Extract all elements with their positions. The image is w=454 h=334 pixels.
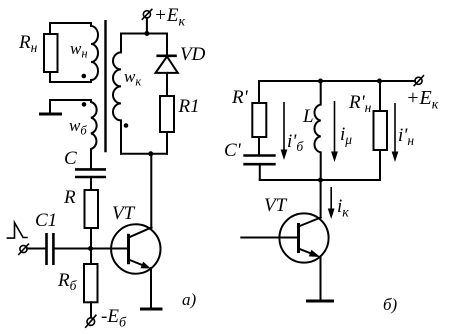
polarity dot wк — [124, 123, 129, 128]
inductor L — [314, 81, 320, 180]
wire: diode to R1 — [166, 73, 168, 96]
wire: C to R — [90, 178, 92, 190]
transistor VT (circuit a) — [111, 224, 160, 273]
wire: bottom rail (b) — [260, 179, 380, 181]
wire: Rн left vertical bottom — [49, 72, 51, 82]
emitter VT(b) with arrow — [299, 249, 313, 254]
ground (circuit b) — [306, 300, 334, 303]
pulse symbol — [7, 223, 28, 239]
winding wб — [91, 100, 97, 168]
current arrow iк — [330, 187, 332, 211]
wire: wб left drop — [49, 100, 51, 113]
svg-text:R1: R1 — [178, 96, 200, 117]
wire: R to base node — [90, 228, 92, 249]
svg-text:C': C' — [224, 140, 242, 161]
resistor R' — [252, 103, 266, 137]
capacitor C — [75, 168, 106, 171]
node: base junction — [88, 246, 93, 251]
resistor Rб — [84, 264, 98, 302]
wire: rail to R'н — [379, 81, 381, 111]
current arrow i'б — [283, 102, 285, 152]
diode VD — [156, 54, 176, 57]
svg-text:б): б) — [383, 295, 398, 314]
terminal +Ek (circuit a) — [143, 11, 150, 18]
wire: top rail (a) — [121, 33, 167, 35]
wire: Rн loop top — [50, 22, 91, 24]
wire: bottom rail (a) — [121, 153, 167, 155]
polarity dot wн — [82, 74, 87, 79]
ground (circuit a) — [140, 308, 163, 311]
wire: R' to C' — [258, 137, 260, 154]
svg-text:R: R — [63, 187, 76, 208]
resistor R'н — [374, 111, 388, 150]
svg-text:C: C — [64, 148, 77, 169]
svg-text:R': R' — [231, 87, 249, 108]
resistor R — [85, 190, 99, 228]
polarity dot wб — [82, 102, 87, 107]
wire: emitter down (b) — [320, 257, 322, 300]
wire: collector up to rail — [150, 154, 152, 228]
terminal -Eб — [87, 318, 95, 326]
resistor R1 — [160, 96, 174, 132]
base bar VT(b) — [297, 223, 300, 253]
wire: input to C1 — [27, 248, 45, 250]
input terminal — [20, 245, 27, 252]
node: L top junction — [318, 79, 323, 84]
wire: emitter down — [150, 268, 152, 308]
wire: Rб to -Eб terminal — [90, 302, 92, 317]
wire: Rн loop bottom — [50, 81, 91, 83]
svg-text:VD: VD — [180, 44, 206, 65]
node: R'н top junction — [377, 79, 382, 84]
collector diagonal VT(a) — [129, 228, 152, 238]
node: bottom rail junction — [148, 151, 153, 156]
wire: C' to bottom rail — [259, 166, 261, 181]
wire: rail to R' — [258, 81, 260, 103]
winding wк — [113, 34, 121, 154]
chassis bar (wб common) — [39, 113, 62, 116]
collector diagonal VT(b) — [299, 218, 321, 227]
transistor VT (circuit b) — [279, 213, 328, 262]
current arrow i'н — [394, 103, 396, 154]
wire: rail to diode — [166, 34, 168, 56]
svg-text:VT: VT — [264, 195, 288, 216]
wire: C1 to base bar (base wire) — [55, 248, 129, 250]
resistor Rн — [44, 34, 58, 72]
wire: node to Rб — [90, 249, 92, 265]
node: bottom rail junction (b) — [318, 178, 323, 183]
wire: R1 to bottom rail — [166, 132, 168, 154]
wire: +Ek to top rail — [146, 18, 148, 34]
wire: top rail (b) — [259, 80, 415, 82]
svg-text:VT: VT — [112, 203, 136, 224]
wire: wб top — [50, 99, 91, 101]
svg-text:L: L — [302, 106, 314, 127]
wire: R'н to bottom rail — [379, 150, 381, 180]
winding wн — [91, 23, 98, 82]
current arrow iμ — [334, 101, 336, 154]
transformer core — [104, 20, 106, 152]
terminal +Ek (b) — [415, 77, 422, 84]
wire: rail down to collector — [320, 180, 322, 218]
capacitor C' — [243, 154, 275, 157]
base bar VT(a) — [127, 234, 130, 264]
base wire VT(b) — [241, 237, 298, 239]
emitter VT(a) with arrow — [129, 260, 144, 266]
svg-text:а): а) — [182, 290, 197, 309]
wire: Rн left vertical top — [49, 23, 51, 34]
capacitor C1 — [45, 233, 48, 265]
node: top rail junction — [144, 31, 149, 36]
svg-text:C1: C1 — [35, 210, 57, 231]
